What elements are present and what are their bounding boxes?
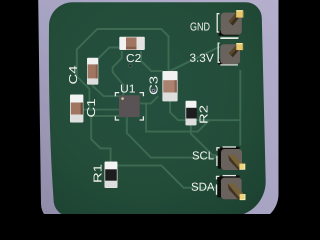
wire U1 to R1 <box>91 116 119 162</box>
wire 3.3V vertical rail <box>239 70 241 146</box>
resistor R2 (vertical) <box>186 101 197 126</box>
wire C2 right pad to C3 <box>141 51 163 71</box>
silkscreen SCL pad <box>217 147 236 166</box>
pad SDA <box>217 175 245 199</box>
silkscreen SDA pad <box>217 176 237 195</box>
silkscreen GND pad <box>217 14 238 38</box>
wire R2 to SCL <box>191 125 217 155</box>
svg-text:3.3V: 3.3V <box>189 53 214 65</box>
capacitor C1 (vertical) <box>70 95 83 123</box>
wire R1 to SDA <box>118 166 220 188</box>
capacitor C3 (vertical) <box>162 71 177 101</box>
IC U1 <box>119 95 140 117</box>
capacitor C2 (horizontal) <box>119 37 145 50</box>
svg-text:GND: GND <box>190 22 210 34</box>
wire C4 top to C2 left <box>98 48 119 59</box>
wire C4 bottom to U1 <box>93 84 119 96</box>
wire U1 right to C3 bottom <box>146 96 158 103</box>
pad SCL <box>218 147 245 170</box>
svg-text:C3: C3 <box>148 76 160 95</box>
wire C3 top to 3.3V pad <box>170 47 220 72</box>
board top surface (green soldermask) <box>49 2 266 216</box>
wire C3 top to C1 area (big route) <box>77 29 169 110</box>
svg-text:SCL: SCL <box>192 150 215 162</box>
via under C2 <box>128 63 132 67</box>
board substrate (purple edge) <box>38 0 278 222</box>
svg-text:U1: U1 <box>120 84 136 96</box>
pad 3.3V <box>218 44 242 65</box>
wire U1 bottom to SCL <box>127 117 219 158</box>
silkscreen corner brackets U1 <box>115 93 143 120</box>
svg-text:R1: R1 <box>92 164 104 183</box>
resistor R1 (vertical) <box>105 162 118 189</box>
wire C3 bottom to rail <box>170 96 240 120</box>
traces <box>77 29 241 188</box>
silkscreen 3.3V pad <box>218 38 238 65</box>
pad GND <box>219 11 243 36</box>
wire R2 area to 3.3V rail <box>191 120 210 131</box>
wire U1 right to R2 bottom <box>140 103 191 131</box>
wire C1 to U1 <box>84 109 120 111</box>
svg-text:C4: C4 <box>68 65 80 85</box>
svg-text:C1: C1 <box>86 98 98 117</box>
capacitor C4 (vertical) <box>87 58 98 85</box>
svg-text:R2: R2 <box>198 105 210 124</box>
wire C2 left pad down to U1 <box>113 51 124 95</box>
via near C3 label <box>152 89 156 93</box>
svg-text:C2: C2 <box>126 53 141 65</box>
svg-text:SDA: SDA <box>191 182 215 194</box>
